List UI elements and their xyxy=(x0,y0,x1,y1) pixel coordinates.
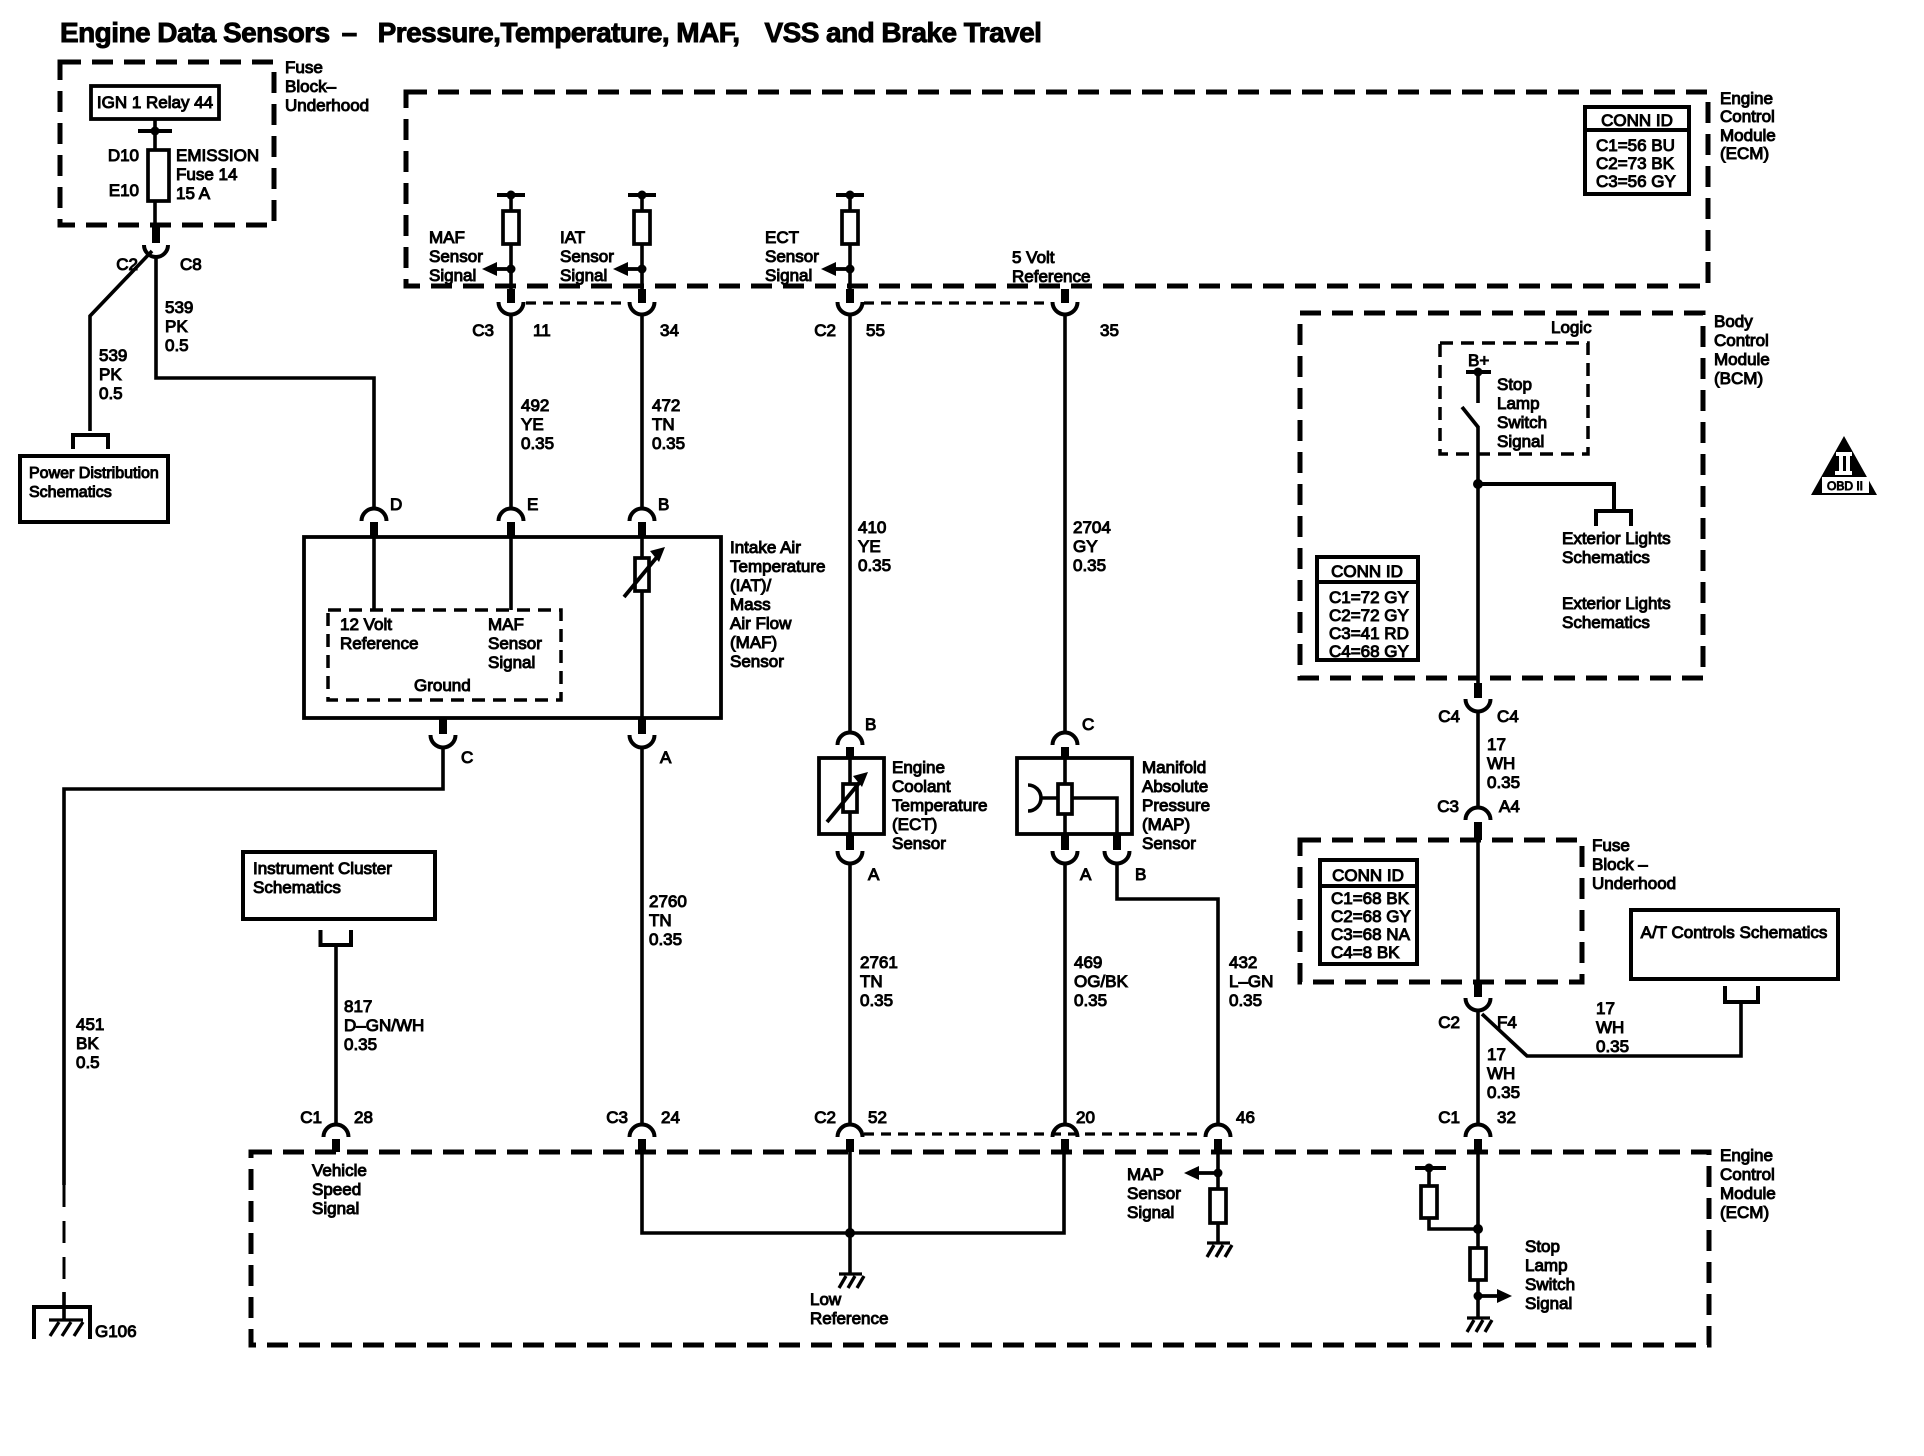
pin label B xyxy=(658,495,669,514)
ECM top dashed box xyxy=(406,92,1708,286)
label Engine Control Module (ECM) bottom xyxy=(1720,1146,1776,1222)
wire switch to junction xyxy=(1476,426,1480,683)
svg-text:MAF: MAF xyxy=(429,228,465,247)
wire 17 WH (C4 to C3/A4) xyxy=(1476,712,1480,808)
label Intake Air Temperature (IAT)/ Mass Air Flow (MAF) Sensor xyxy=(730,538,825,671)
node B+ bar at fuse top xyxy=(138,127,172,136)
svg-text:Absolute: Absolute xyxy=(1142,777,1208,796)
thermistor IAT inside MAF xyxy=(624,537,665,718)
svg-text:B: B xyxy=(658,495,669,514)
svg-text:C3=41 RD: C3=41 RD xyxy=(1329,624,1409,643)
pin label A4 xyxy=(1499,797,1520,816)
ground MAP pulldown xyxy=(1207,1243,1232,1257)
svg-text:C3: C3 xyxy=(1437,797,1459,816)
svg-text:0.35: 0.35 xyxy=(521,434,554,453)
svg-text:(ECT): (ECT) xyxy=(892,815,937,834)
svg-text:A: A xyxy=(868,865,880,884)
node low reference junction xyxy=(845,1228,855,1238)
dashed wire to G106 xyxy=(63,1185,66,1307)
wire label 469 OG/BK 0.35 xyxy=(1074,953,1129,1010)
svg-text:469: 469 xyxy=(1074,953,1102,972)
MAF sensor box xyxy=(304,537,721,718)
fuse block underhood (top-left) dashed box xyxy=(60,62,274,225)
label Fuse Block - Underhood (right) xyxy=(1592,836,1676,893)
label Low Reference xyxy=(810,1290,888,1328)
svg-text:(ECM): (ECM) xyxy=(1720,144,1769,163)
wire C2 branch diagonal xyxy=(90,251,152,431)
svg-text:Lamp: Lamp xyxy=(1497,394,1540,413)
pin label C xyxy=(461,748,473,767)
label MAF Sensor Signal xyxy=(429,228,483,285)
svg-text:CONN ID: CONN ID xyxy=(1332,866,1404,885)
pin C2 xyxy=(116,255,138,274)
svg-text:2704: 2704 xyxy=(1073,518,1111,537)
node B+ bar (stop lamp pullup) xyxy=(1415,1164,1446,1173)
svg-text:C4: C4 xyxy=(1438,707,1460,726)
pin label C2 (52) xyxy=(814,1108,836,1127)
connector pin B (MAP) xyxy=(1105,834,1130,864)
wire relay to fuse xyxy=(153,119,157,150)
fuse block underhood (right) dashed box xyxy=(1300,840,1582,982)
svg-text:817: 817 xyxy=(344,997,372,1016)
svg-text:C4=68 GY: C4=68 GY xyxy=(1329,642,1409,661)
connector C3/A4 xyxy=(1466,808,1491,841)
svg-text:Stop: Stop xyxy=(1497,375,1532,394)
connector C4/C4 xyxy=(1466,683,1491,712)
triangle OBD II marker xyxy=(1811,436,1877,495)
svg-text:Schematics: Schematics xyxy=(1562,613,1650,632)
connector C2 pin 52 xyxy=(838,1125,863,1153)
pin label C3 xyxy=(472,321,494,340)
connector pin 34 xyxy=(630,289,655,315)
pin label C1 (28) xyxy=(300,1108,322,1127)
pin label D xyxy=(390,495,402,514)
svg-text:C8: C8 xyxy=(180,255,202,274)
connector pin E (MAF) xyxy=(499,509,524,538)
svg-text:WH: WH xyxy=(1596,1018,1624,1037)
svg-text:C2: C2 xyxy=(814,321,836,340)
svg-text:(BCM): (BCM) xyxy=(1714,369,1763,388)
connector C2/C8 xyxy=(144,226,168,257)
svg-text:Module: Module xyxy=(1720,126,1776,145)
resistor (MAF pullup in ECM) xyxy=(497,191,525,290)
svg-text:CONN ID: CONN ID xyxy=(1601,111,1673,130)
svg-text:Signal: Signal xyxy=(1127,1203,1174,1222)
MAP pressure transducer symbol xyxy=(1028,758,1117,834)
svg-text:PK: PK xyxy=(165,317,188,336)
connector pin B (ECT) xyxy=(838,733,863,759)
node IAT sensor signal junction + arrow xyxy=(613,262,647,276)
svg-text:C1: C1 xyxy=(1438,1108,1460,1127)
svg-text:0.5: 0.5 xyxy=(99,384,123,403)
wire label 492 YE 0.35 xyxy=(521,396,554,453)
wire 12V inside MAF xyxy=(372,537,376,610)
wire label 2760 TN 0.35 xyxy=(649,892,687,949)
svg-text:492: 492 xyxy=(521,396,549,415)
resistor (IAT pullup in ECM) xyxy=(628,191,656,290)
pin E10 xyxy=(109,181,139,200)
label Engine Coolant Temperature (ECT) Sensor xyxy=(892,758,987,853)
svg-text:C3=68 NA: C3=68 NA xyxy=(1331,925,1411,944)
connector pin B (MAF) xyxy=(630,509,655,538)
svg-text:Underhood: Underhood xyxy=(1592,874,1676,893)
pin label C3 (mid) xyxy=(1437,797,1459,816)
wire C8 branch to pin D xyxy=(156,256,374,508)
BCM logic inner dashed box xyxy=(1440,343,1588,454)
node B+ bar xyxy=(1466,368,1491,377)
wire junction to ground xyxy=(848,1233,852,1274)
svg-text:ECT: ECT xyxy=(765,228,799,247)
wire label 472 TN 0.35 xyxy=(652,396,685,453)
wire 492 YE (pin 11 to E) xyxy=(509,315,513,508)
svg-text:46: 46 xyxy=(1236,1108,1255,1127)
svg-text:Ground: Ground xyxy=(414,676,471,695)
svg-text:Temperature: Temperature xyxy=(730,557,825,576)
svg-text:0.35: 0.35 xyxy=(1487,773,1520,792)
svg-text:472: 472 xyxy=(652,396,680,415)
wire label 410 YE 0.35 xyxy=(858,518,891,575)
node ECT sensor signal junction + arrow xyxy=(821,262,855,276)
wire through fuse block xyxy=(1476,840,1480,982)
svg-text:451: 451 xyxy=(76,1015,104,1034)
svg-text:Signal: Signal xyxy=(1497,432,1544,451)
pin label C4 (left) xyxy=(1438,707,1460,726)
svg-text:Reference: Reference xyxy=(1012,267,1090,286)
svg-text:17: 17 xyxy=(1596,999,1615,1018)
bottom ECM dashed box xyxy=(251,1152,1709,1345)
relay IGN 1 Relay 44 xyxy=(91,86,219,119)
svg-text:Reference: Reference xyxy=(340,634,418,653)
pin label 34 xyxy=(660,321,679,340)
svg-text:34: 34 xyxy=(660,321,679,340)
wire 2761 TN (ECT A to pin 52) xyxy=(848,864,852,1124)
svg-text:0.5: 0.5 xyxy=(76,1053,100,1072)
pin label E xyxy=(527,495,538,514)
svg-text:Sensor: Sensor xyxy=(488,634,542,653)
svg-text:(IAT)/: (IAT)/ xyxy=(730,576,772,595)
svg-text:32: 32 xyxy=(1497,1108,1516,1127)
svg-text:Fuse 14: Fuse 14 xyxy=(176,165,237,184)
svg-text:0.35: 0.35 xyxy=(1596,1037,1629,1056)
resistor stop lamp pullup xyxy=(1421,1168,1478,1229)
svg-text:TN: TN xyxy=(860,972,883,991)
wire junction to exterior lights fork xyxy=(1478,484,1614,509)
svg-text:WH: WH xyxy=(1487,754,1515,773)
svg-text:Coolant: Coolant xyxy=(892,777,951,796)
svg-text:Switch: Switch xyxy=(1525,1275,1575,1294)
wire branch to A/T controls xyxy=(1482,1004,1741,1056)
reference box Power Distribution Schematics xyxy=(20,456,168,522)
connector dashed tie line 52-20-46 xyxy=(864,1132,1204,1135)
svg-text:CONN ID: CONN ID xyxy=(1331,562,1403,581)
svg-text:(MAF): (MAF) xyxy=(730,633,777,652)
wire low reference bus xyxy=(642,1152,1064,1233)
svg-text:Underhood: Underhood xyxy=(285,96,369,115)
svg-text:Signal: Signal xyxy=(765,266,812,285)
svg-text:0.35: 0.35 xyxy=(1073,556,1106,575)
label Stop Lamp Switch Signal (ECM) xyxy=(1525,1237,1575,1313)
svg-text:BK: BK xyxy=(76,1034,99,1053)
resistor MAP pulldown xyxy=(1210,1189,1226,1243)
connector C1 pin 32 xyxy=(1466,1125,1491,1153)
pin label B (MAP) xyxy=(1135,865,1146,884)
wire 2704 GY (pin 35 to MAP C) xyxy=(1063,315,1067,733)
value label EMISSION Fuse 14 15 A xyxy=(176,146,259,203)
svg-text:539: 539 xyxy=(99,346,127,365)
svg-text:Pressure: Pressure xyxy=(1142,796,1210,815)
label Logic xyxy=(1551,318,1592,337)
ground stop lamp xyxy=(1467,1318,1492,1332)
svg-text:Engine: Engine xyxy=(892,758,945,777)
svg-text:Switch: Switch xyxy=(1497,413,1547,432)
label Engine Control Module (ECM) top xyxy=(1720,89,1776,163)
resistor stop lamp series xyxy=(1470,1248,1486,1318)
off-page bracket A/T controls xyxy=(1725,986,1758,1002)
wire 432 L-GN (MAP B to pin 46) xyxy=(1117,864,1218,1124)
svg-text:C1=72 GY: C1=72 GY xyxy=(1329,588,1409,607)
svg-text:0.35: 0.35 xyxy=(860,991,893,1010)
off-page bracket instrument cluster xyxy=(321,930,352,945)
svg-text:C1=56 BU: C1=56 BU xyxy=(1596,136,1675,155)
svg-text:11: 11 xyxy=(533,321,551,340)
connector dashed tie line 55-35 xyxy=(864,301,1051,304)
svg-text:MAP: MAP xyxy=(1127,1165,1164,1184)
label ECT Sensor Signal xyxy=(765,228,819,285)
label 12 Volt Reference xyxy=(340,615,418,653)
svg-text:L–GN: L–GN xyxy=(1229,972,1273,991)
svg-text:Sensor: Sensor xyxy=(730,652,784,671)
connector pin C (MAP) xyxy=(1053,733,1078,759)
svg-text:TN: TN xyxy=(649,911,672,930)
wire fuse to connector C2/C8 xyxy=(153,201,157,228)
wire 46 to MAP pulldown xyxy=(1216,1152,1220,1189)
svg-text:52: 52 xyxy=(868,1108,887,1127)
wire C1/32 into ECM xyxy=(1476,1152,1480,1248)
svg-text:C1=68 BK: C1=68 BK xyxy=(1331,889,1410,908)
svg-text:D–GN/WH: D–GN/WH xyxy=(344,1016,424,1035)
resistor (ECT pullup in ECM) xyxy=(836,191,864,290)
svg-text:Block –: Block – xyxy=(1592,855,1648,874)
connector C1 pin 28 xyxy=(324,1125,349,1153)
svg-text:C3: C3 xyxy=(606,1108,628,1127)
pin label C4 (right) xyxy=(1497,707,1519,726)
wire 52 to bus xyxy=(848,1152,852,1233)
svg-text:Sensor: Sensor xyxy=(1142,834,1196,853)
label Manifold Absolute Pressure (MAP) Sensor xyxy=(1142,758,1210,853)
wire label 17 WH 0.35 (upper) xyxy=(1487,735,1520,792)
svg-text:Engine Data Sensors–Pressure,T: Engine Data Sensors–Pressure,Temperature… xyxy=(60,17,1041,48)
wire label 2704 GY 0.35 xyxy=(1073,518,1111,575)
svg-text:E10: E10 xyxy=(109,181,139,200)
connector C2 pin 55 xyxy=(838,289,863,315)
pin label B (ECT) xyxy=(865,715,876,734)
svg-text:2760: 2760 xyxy=(649,892,687,911)
svg-text:Manifold: Manifold xyxy=(1142,758,1206,777)
svg-text:A: A xyxy=(1080,865,1092,884)
svg-text:15 A: 15 A xyxy=(176,184,211,203)
svg-text:Signal: Signal xyxy=(560,266,607,285)
svg-text:PK: PK xyxy=(99,365,122,384)
wire MAF signal inside MAF xyxy=(509,537,513,610)
svg-text:Control: Control xyxy=(1720,107,1775,126)
svg-text:Signal: Signal xyxy=(1525,1294,1572,1313)
svg-text:Logic: Logic xyxy=(1551,318,1592,337)
svg-text:(ECM): (ECM) xyxy=(1720,1203,1769,1222)
ground low reference xyxy=(839,1274,864,1288)
svg-text:Intake Air: Intake Air xyxy=(730,538,801,557)
connector pin 35 xyxy=(1053,289,1078,315)
svg-text:Low: Low xyxy=(810,1290,842,1309)
svg-text:C2=73 BK: C2=73 BK xyxy=(1596,154,1675,173)
svg-text:0.35: 0.35 xyxy=(649,930,682,949)
node MAF sensor signal junction + arrow xyxy=(482,262,516,276)
connector dashed tie line C3-34 xyxy=(526,301,628,304)
svg-text:A/T Controls Schematics: A/T Controls Schematics xyxy=(1641,923,1828,942)
pin label A (ECT) xyxy=(868,865,880,884)
svg-text:Air Flow: Air Flow xyxy=(730,614,792,633)
svg-text:B: B xyxy=(865,715,876,734)
pin label 55 xyxy=(866,321,885,340)
svg-text:35: 35 xyxy=(1100,321,1119,340)
svg-text:0.35: 0.35 xyxy=(858,556,891,575)
svg-text:GY: GY xyxy=(1073,537,1098,556)
svg-text:Schematics: Schematics xyxy=(253,878,341,897)
svg-text:C2=72 GY: C2=72 GY xyxy=(1329,606,1409,625)
label Vehicle Speed Signal xyxy=(312,1161,367,1218)
label MAP Sensor Signal xyxy=(1127,1165,1181,1222)
pin label C2 xyxy=(814,321,836,340)
label Exterior Lights Schematics (1) xyxy=(1562,529,1671,567)
wire label 2761 TN 0.35 xyxy=(860,953,898,1010)
svg-text:C: C xyxy=(461,748,473,767)
pin label 52 xyxy=(868,1108,887,1127)
svg-text:Fuse: Fuse xyxy=(285,58,323,77)
BCM dashed box xyxy=(1300,313,1703,678)
svg-text:Exterior Lights: Exterior Lights xyxy=(1562,594,1671,613)
svg-text:A: A xyxy=(660,748,672,767)
wire label 17 WH 0.35 (A/T branch) xyxy=(1596,999,1629,1056)
wire label 432 L-GN 0.35 xyxy=(1229,953,1273,1010)
svg-text:E: E xyxy=(527,495,538,514)
svg-text:0.35: 0.35 xyxy=(1229,991,1262,1010)
svg-text:17: 17 xyxy=(1487,1045,1506,1064)
svg-text:C4: C4 xyxy=(1497,707,1519,726)
svg-text:Block–: Block– xyxy=(285,77,337,96)
connector pin A (MAP) xyxy=(1053,834,1078,864)
pin label F4 xyxy=(1497,1013,1517,1032)
svg-text:Sensor: Sensor xyxy=(429,247,483,266)
svg-text:Module: Module xyxy=(1714,350,1770,369)
svg-text:Signal: Signal xyxy=(488,653,535,672)
switch stop lamp (BCM) xyxy=(1462,372,1478,427)
svg-text:Sensor: Sensor xyxy=(892,834,946,853)
pin label 24 xyxy=(661,1108,680,1127)
svg-text:OBD II: OBD II xyxy=(1827,479,1863,493)
wire label 17 WH 0.35 (lower) xyxy=(1487,1045,1520,1102)
connector C2/F4 xyxy=(1466,982,1491,1010)
svg-text:C3=56 GY: C3=56 GY xyxy=(1596,172,1676,191)
svg-text:Vehicle: Vehicle xyxy=(312,1161,367,1180)
net label B+ xyxy=(1468,351,1489,370)
svg-text:Lamp: Lamp xyxy=(1525,1256,1568,1275)
CONN ID table (fuse block) xyxy=(1320,860,1417,964)
pin label C3 (24) xyxy=(606,1108,628,1127)
svg-text:0.35: 0.35 xyxy=(344,1035,377,1054)
svg-text:Fuse: Fuse xyxy=(1592,836,1630,855)
svg-text:B+: B+ xyxy=(1468,351,1489,370)
svg-text:0.35: 0.35 xyxy=(1487,1083,1520,1102)
node MAP sensor signal junction + arrow xyxy=(1184,1166,1223,1180)
pin label 46 xyxy=(1236,1108,1255,1127)
svg-text:Exterior Lights: Exterior Lights xyxy=(1562,529,1671,548)
svg-text:17: 17 xyxy=(1487,735,1506,754)
CONN ID table (ECM top) xyxy=(1585,107,1689,194)
svg-text:Speed: Speed xyxy=(312,1180,361,1199)
wire MAF ground C to ground run xyxy=(64,748,443,1185)
svg-text:EMISSION: EMISSION xyxy=(176,146,259,165)
svg-text:Sensor: Sensor xyxy=(765,247,819,266)
svg-text:12 Volt: 12 Volt xyxy=(340,615,392,634)
connector pin D (MAF) xyxy=(362,509,387,538)
svg-text:Engine: Engine xyxy=(1720,1146,1773,1165)
svg-text:A4: A4 xyxy=(1499,797,1520,816)
wire 410 YE (pin 55 to ECT B) xyxy=(848,315,852,733)
off-page bracket exterior lights xyxy=(1596,511,1631,526)
svg-text:Schematics: Schematics xyxy=(1562,548,1650,567)
svg-text:0.5: 0.5 xyxy=(165,336,189,355)
svg-text:IAT: IAT xyxy=(560,228,585,247)
svg-text:TN: TN xyxy=(652,415,675,434)
pin label C1 (32) xyxy=(1438,1108,1460,1127)
svg-text:Control: Control xyxy=(1720,1165,1775,1184)
svg-text:Control: Control xyxy=(1714,331,1769,350)
svg-text:20: 20 xyxy=(1076,1108,1095,1127)
pin label A (MAP) xyxy=(1080,865,1092,884)
wire 469 OG/BK (MAP A to pin 20) xyxy=(1063,864,1067,1124)
wire label 451 BK 0.5 xyxy=(76,1015,104,1072)
off-page bracket to power distribution xyxy=(73,435,108,449)
svg-text:C1: C1 xyxy=(300,1108,322,1127)
connector C3 pin 11 xyxy=(499,289,524,315)
svg-text:C3: C3 xyxy=(472,321,494,340)
connector pin 20 xyxy=(1053,1125,1078,1153)
label Exterior Lights Schematics (2) xyxy=(1562,594,1671,632)
pin label 20 xyxy=(1076,1108,1095,1127)
svg-text:Schematics: Schematics xyxy=(29,484,112,501)
svg-text:24: 24 xyxy=(661,1108,680,1127)
node stop lamp junction xyxy=(1473,1224,1483,1234)
svg-text:C2: C2 xyxy=(1438,1013,1460,1032)
connector pin 46 xyxy=(1206,1125,1231,1153)
svg-text:IGN 1 Relay 44: IGN 1 Relay 44 xyxy=(97,93,213,112)
svg-text:YE: YE xyxy=(521,415,544,434)
svg-text:Signal: Signal xyxy=(312,1199,359,1218)
node junction dot xyxy=(1473,479,1483,489)
pin label A xyxy=(660,748,672,767)
wire label 539 PK 0.5 (left) xyxy=(99,346,127,403)
connector pin A (ECT) xyxy=(838,834,863,864)
svg-text:5 Volt: 5 Volt xyxy=(1012,248,1055,267)
pin label C2 (F4) xyxy=(1438,1013,1460,1032)
CONN ID table (BCM) xyxy=(1317,557,1418,661)
svg-text:Reference: Reference xyxy=(810,1309,888,1328)
fuse F14 EMISSION 15A xyxy=(148,150,169,201)
wire 472 TN (pin 34 to B) xyxy=(640,315,644,508)
pin label C (MAP) xyxy=(1082,715,1094,734)
label Ground xyxy=(414,676,471,695)
ground G106 xyxy=(34,1307,90,1339)
svg-text:55: 55 xyxy=(866,321,885,340)
